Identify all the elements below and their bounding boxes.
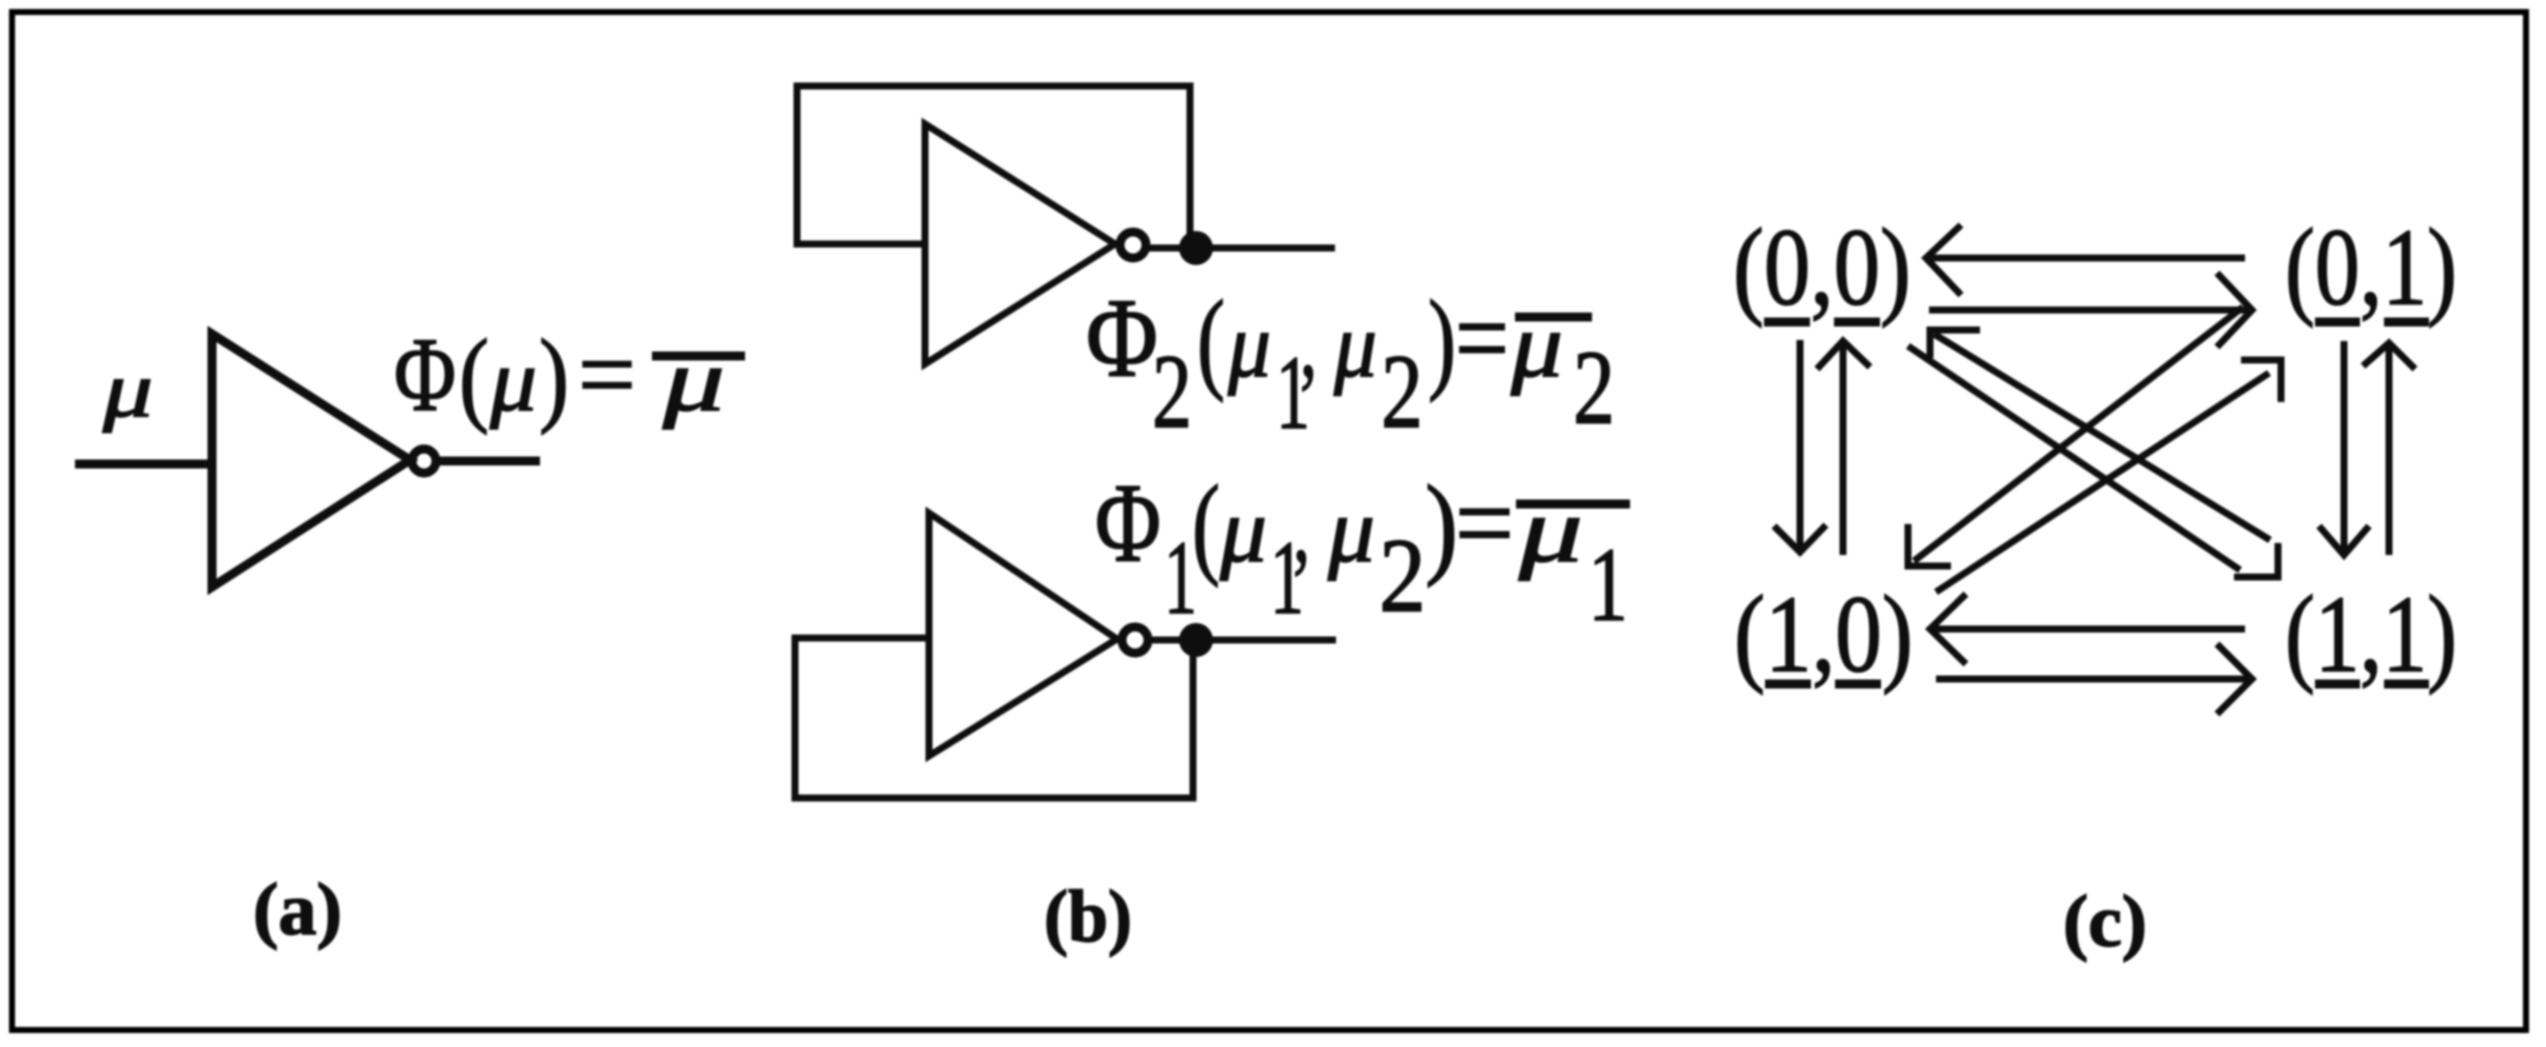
wire: feedback loop of inverter U2 (top) (797, 86, 1190, 248)
svg-text:): ) (1428, 278, 1456, 403)
svg-text:1: 1 (1588, 526, 1628, 643)
svg-text:(c): (c) (2063, 881, 2147, 963)
arrow (1,0)->(1,1) bottom right-pointing (1936, 644, 2252, 714)
svg-text:μ: μ (489, 332, 537, 430)
svg-text:(: ( (1197, 278, 1225, 403)
wire: output of inverter U1 (437, 457, 540, 466)
svg-text:2: 2 (1573, 329, 1615, 446)
svg-text:): ) (539, 318, 569, 435)
inverter U3 triangle (bottom) (929, 513, 1117, 756)
svg-text:μ: μ (1227, 294, 1271, 396)
inverter U1 triangle (212, 334, 410, 587)
wire: output of inverter U3 (1148, 637, 1336, 644)
svg-text:μ: μ (1333, 294, 1377, 396)
arrow (0,0)->(1,0) left down-pointing (1774, 340, 1826, 552)
svg-text:2: 2 (1152, 333, 1192, 450)
state node (1,0) (1734, 573, 1913, 695)
svg-text:Φ: Φ (1095, 461, 1161, 586)
arrow (1,1)->(0,1) right up-pointing (2363, 343, 2415, 555)
svg-text:μ: μ (102, 346, 153, 433)
svg-text:μ: μ (662, 332, 725, 430)
svg-text:,: , (1293, 472, 1310, 583)
svg-text:μ: μ (1219, 479, 1267, 581)
arrow (0,0)->(0,1) top right-pointing (1929, 273, 2252, 347)
state node (1,1) (2285, 573, 2457, 695)
junction node of U2 output (1179, 231, 1213, 265)
svg-text:(1,1): (1,1) (2285, 573, 2457, 695)
arrow (1,1)->(1,0) bottom left-pointing (1930, 594, 2245, 664)
arrow (0,1)->(1,1) right down-pointing (2319, 341, 2369, 555)
svg-text:): ) (1425, 463, 1458, 588)
label Φ(μ)=μ̄ for U1 (394, 316, 745, 435)
arrow (0,0)->(1,1) diagonal down-right (1908, 346, 2278, 577)
wire: feedback loop of inverter U3 (795, 638, 1193, 798)
svg-text:(0,1): (0,1) (2285, 206, 2457, 328)
svg-text:(1,0): (1,0) (1734, 573, 1913, 695)
label Φ2(μ1,μ2)=μ̄2 for U2 (1086, 276, 1615, 451)
svg-text:=: = (578, 316, 636, 433)
arrow (1,0)->(0,1) diagonal up-right (1936, 360, 2281, 592)
svg-text:μ: μ (1327, 479, 1375, 581)
junction node of U3 output (1179, 623, 1213, 657)
svg-text:(a): (a) (253, 869, 342, 951)
arrow (1,0)->(0,0) left up-pointing (1817, 341, 1870, 555)
svg-text:(0,0): (0,0) (1733, 206, 1911, 328)
inverter U2 output bubble (1120, 232, 1146, 258)
inverter U3 output bubble (1122, 627, 1148, 653)
svg-text:2: 2 (1381, 333, 1423, 450)
svg-text:(b): (b) (1044, 876, 1132, 958)
svg-text:2: 2 (1379, 517, 1426, 634)
arrow (0,1)->(1,0) diagonal down-left (1908, 307, 2243, 566)
svg-text:,: , (1300, 287, 1317, 398)
svg-text:(: ( (1192, 463, 1220, 588)
svg-text:=: = (1455, 461, 1514, 586)
svg-text:(: ( (459, 318, 489, 435)
svg-text:=: = (1455, 276, 1509, 401)
svg-text:Φ: Φ (1086, 276, 1158, 401)
wire: input of inverter U1 (75, 460, 212, 469)
state node (0,0) (1733, 206, 1911, 328)
label Φ1(μ1,μ2)=μ̄1 for U3 (1095, 461, 1630, 643)
svg-text:μ: μ (1510, 294, 1563, 396)
svg-text:Φ: Φ (394, 316, 456, 433)
state node (0,1) (2285, 206, 2457, 328)
arrow (1,1)->(0,0) diagonal up-left (1930, 330, 2270, 540)
svg-text:μ: μ (1518, 479, 1583, 581)
inverter U2 triangle (925, 124, 1115, 364)
wire: output of inverter U2 (1146, 245, 1335, 252)
inverter U1 output bubble (412, 449, 436, 473)
arrow (0,1)->(0,0) top left-pointing (1926, 225, 2245, 295)
